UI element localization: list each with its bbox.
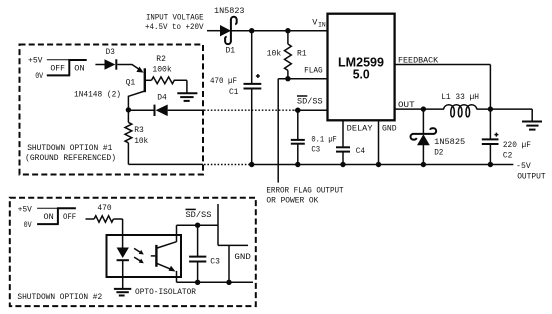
svg-text:R2: R2 bbox=[156, 55, 166, 64]
svg-text:10k: 10k bbox=[267, 50, 282, 59]
svg-text:FLAG: FLAG bbox=[304, 67, 323, 76]
wire SD/SS solid bbox=[295, 109, 328, 111]
inductor L1 33uH bbox=[441, 93, 479, 117]
resistor R3 10k bbox=[125, 110, 148, 164]
wire D1 to VIN bbox=[231, 30, 328, 32]
wire FLAG pin bbox=[278, 78, 327, 80]
node junction C1 top bbox=[249, 28, 254, 33]
svg-text:100k: 100k bbox=[152, 66, 172, 75]
capacitor C4 bbox=[336, 147, 365, 164]
svg-text:220 µF: 220 µF bbox=[503, 141, 531, 150]
wire SD/SS dotted to option1 bbox=[204, 109, 295, 111]
capacitor C3 0.1uF bbox=[291, 110, 337, 164]
svg-text:0V: 0V bbox=[35, 72, 43, 81]
resistor R2 100k bbox=[152, 55, 187, 84]
svg-text:1N5823: 1N5823 bbox=[214, 7, 245, 16]
svg-text:L1 33 µH: L1 33 µH bbox=[441, 93, 479, 102]
wire bottom rail bbox=[250, 164, 513, 166]
ground R2 bbox=[177, 80, 197, 101]
svg-text:+4.5V to +20V: +4.5V to +20V bbox=[145, 23, 204, 32]
switch waveform option2 bbox=[37, 208, 76, 225]
svg-text:ON: ON bbox=[44, 213, 54, 222]
label ERROR FLAG OUTPUT bbox=[266, 186, 343, 205]
svg-text:OPTO-ISOLATOR: OPTO-ISOLATOR bbox=[135, 288, 196, 297]
svg-text:C3: C3 bbox=[311, 146, 320, 155]
wire emitter rail option2 bbox=[177, 281, 254, 283]
svg-text:470: 470 bbox=[97, 204, 111, 213]
switch waveform option1 bbox=[47, 60, 87, 76]
node junction GND rail bbox=[376, 162, 381, 167]
node junction OUT / D2 bbox=[421, 106, 426, 111]
svg-text:1N5825: 1N5825 bbox=[434, 138, 465, 147]
pin GND wire bbox=[379, 120, 397, 164]
node junction R1 / FLAG bbox=[285, 76, 290, 81]
wire FEEDBACK bbox=[395, 57, 491, 110]
svg-text:(GROUND REFERENCED): (GROUND REFERENCED) bbox=[25, 154, 116, 163]
svg-text:D1: D1 bbox=[226, 47, 236, 56]
wire R3 bottom to box edge bbox=[128, 163, 203, 165]
svg-text:OFF: OFF bbox=[63, 213, 76, 222]
opto-isolator U2 box bbox=[107, 235, 182, 277]
svg-text:R3: R3 bbox=[134, 126, 144, 135]
svg-text:GND: GND bbox=[382, 125, 397, 134]
label SD/SS option2 bbox=[186, 209, 212, 220]
capacitor C3 option2 bbox=[189, 225, 220, 282]
shutdown option 2 dashed box bbox=[10, 198, 256, 306]
svg-text:0.1 µF: 0.1 µF bbox=[311, 136, 337, 145]
label +5V 0V option2 bbox=[18, 205, 32, 230]
node junction C2 rail bbox=[488, 162, 493, 167]
node junction SD/SS C3 option2 bbox=[195, 223, 200, 228]
node junction Q1 emitter bbox=[126, 107, 131, 112]
node junction DELAY rail bbox=[340, 162, 345, 167]
svg-text:+5V: +5V bbox=[28, 56, 43, 65]
label INPUT VOLTAGE bbox=[145, 13, 204, 31]
pin label SD/SS bbox=[297, 96, 323, 107]
node junction SD/SS / C3 bbox=[295, 108, 300, 113]
transistor Q1 bbox=[126, 68, 152, 110]
wire SD/SS stub up bbox=[217, 204, 219, 245]
svg-text:0V: 0V bbox=[24, 221, 32, 230]
svg-text:1N4148 (2): 1N4148 (2) bbox=[74, 91, 121, 100]
svg-text:R1: R1 bbox=[297, 50, 307, 59]
svg-text:IN: IN bbox=[318, 21, 326, 28]
node junction C3 rail bbox=[295, 162, 300, 167]
wire OUT bbox=[395, 101, 444, 110]
light arrows bbox=[134, 248, 144, 263]
wire GND jog bbox=[218, 245, 251, 282]
svg-text:DELAY: DELAY bbox=[347, 125, 373, 134]
svg-text:C4: C4 bbox=[356, 147, 366, 156]
svg-text:OUT: OUT bbox=[398, 101, 415, 110]
wire error flag vertical bbox=[277, 79, 279, 183]
svg-text:C1: C1 bbox=[229, 88, 239, 97]
svg-text:D2: D2 bbox=[434, 149, 443, 158]
shutdown option 1 dashed box bbox=[20, 45, 204, 175]
svg-text:GND: GND bbox=[234, 253, 251, 262]
node junction R1 top bbox=[285, 28, 290, 33]
svg-text:OUTPUT: OUTPUT bbox=[517, 172, 546, 181]
diode D1 1N5823 bbox=[214, 7, 245, 56]
pin label VIN bbox=[312, 17, 326, 28]
svg-text:D4: D4 bbox=[157, 93, 167, 102]
wire L1 to ground bbox=[477, 108, 533, 110]
svg-text:SD/SS: SD/SS bbox=[297, 98, 323, 107]
wire 470 down to LED bbox=[122, 219, 124, 248]
svg-text:ON: ON bbox=[74, 65, 85, 74]
svg-text:SD/SS: SD/SS bbox=[186, 211, 212, 220]
svg-text:ERROR FLAG OUTPUT: ERROR FLAG OUTPUT bbox=[266, 186, 343, 195]
svg-text:+5V: +5V bbox=[18, 205, 32, 214]
label SHUTDOWN OPTION #1 bbox=[25, 144, 116, 163]
wire bottom rail dotted bbox=[204, 164, 250, 166]
node junction C3 rail option2 bbox=[195, 280, 200, 285]
opto transistor Q2 bbox=[151, 225, 177, 282]
wire input to D1 bbox=[207, 30, 221, 32]
label +5V 0V option1 bbox=[28, 56, 43, 80]
LED inside opto bbox=[117, 248, 129, 289]
label -5V OUTPUT bbox=[516, 162, 546, 182]
svg-text:SHUTDOWN OPTION #2: SHUTDOWN OPTION #2 bbox=[17, 293, 102, 302]
op-amp U1 LM2599 box bbox=[328, 14, 395, 121]
pin DELAY bbox=[343, 120, 373, 146]
svg-text:5.0: 5.0 bbox=[353, 67, 370, 82]
svg-text:C2: C2 bbox=[503, 151, 513, 160]
svg-text:Q1: Q1 bbox=[126, 78, 136, 87]
svg-text:SHUTDOWN OPTION #1: SHUTDOWN OPTION #1 bbox=[27, 144, 112, 153]
svg-text:-5V: -5V bbox=[516, 162, 531, 171]
svg-text:INPUT VOLTAGE: INPUT VOLTAGE bbox=[146, 13, 204, 22]
capacitor C2 220uF bbox=[482, 109, 531, 164]
capacitor C1 470uF bbox=[210, 31, 261, 165]
svg-text:D3: D3 bbox=[106, 48, 115, 57]
svg-text:10k: 10k bbox=[134, 137, 148, 146]
resistor 470 bbox=[86, 204, 123, 222]
diode D4 bbox=[128, 93, 203, 116]
node junction C1 rail bbox=[249, 162, 254, 167]
diode D3 bbox=[95, 48, 116, 70]
svg-text:OFF: OFF bbox=[50, 65, 65, 74]
resistor R1 10k bbox=[267, 31, 307, 79]
diode D2 1N5825 bbox=[411, 109, 466, 164]
node junction L1 / C2 / FEEDBACK bbox=[488, 106, 493, 111]
ground LED bbox=[114, 289, 131, 296]
svg-text:FEEDBACK: FEEDBACK bbox=[398, 57, 438, 66]
node junction D2 rail bbox=[421, 162, 426, 167]
svg-text:C3: C3 bbox=[210, 257, 220, 266]
svg-text:OR POWER OK: OR POWER OK bbox=[266, 197, 318, 206]
ground output right bbox=[522, 109, 542, 130]
wire SD/SS option2 bbox=[177, 224, 219, 226]
wire D3 to Q1 base with arrow bbox=[117, 65, 143, 73]
node junction GND rail option2 bbox=[226, 280, 231, 285]
svg-text:470 µF: 470 µF bbox=[210, 77, 237, 86]
